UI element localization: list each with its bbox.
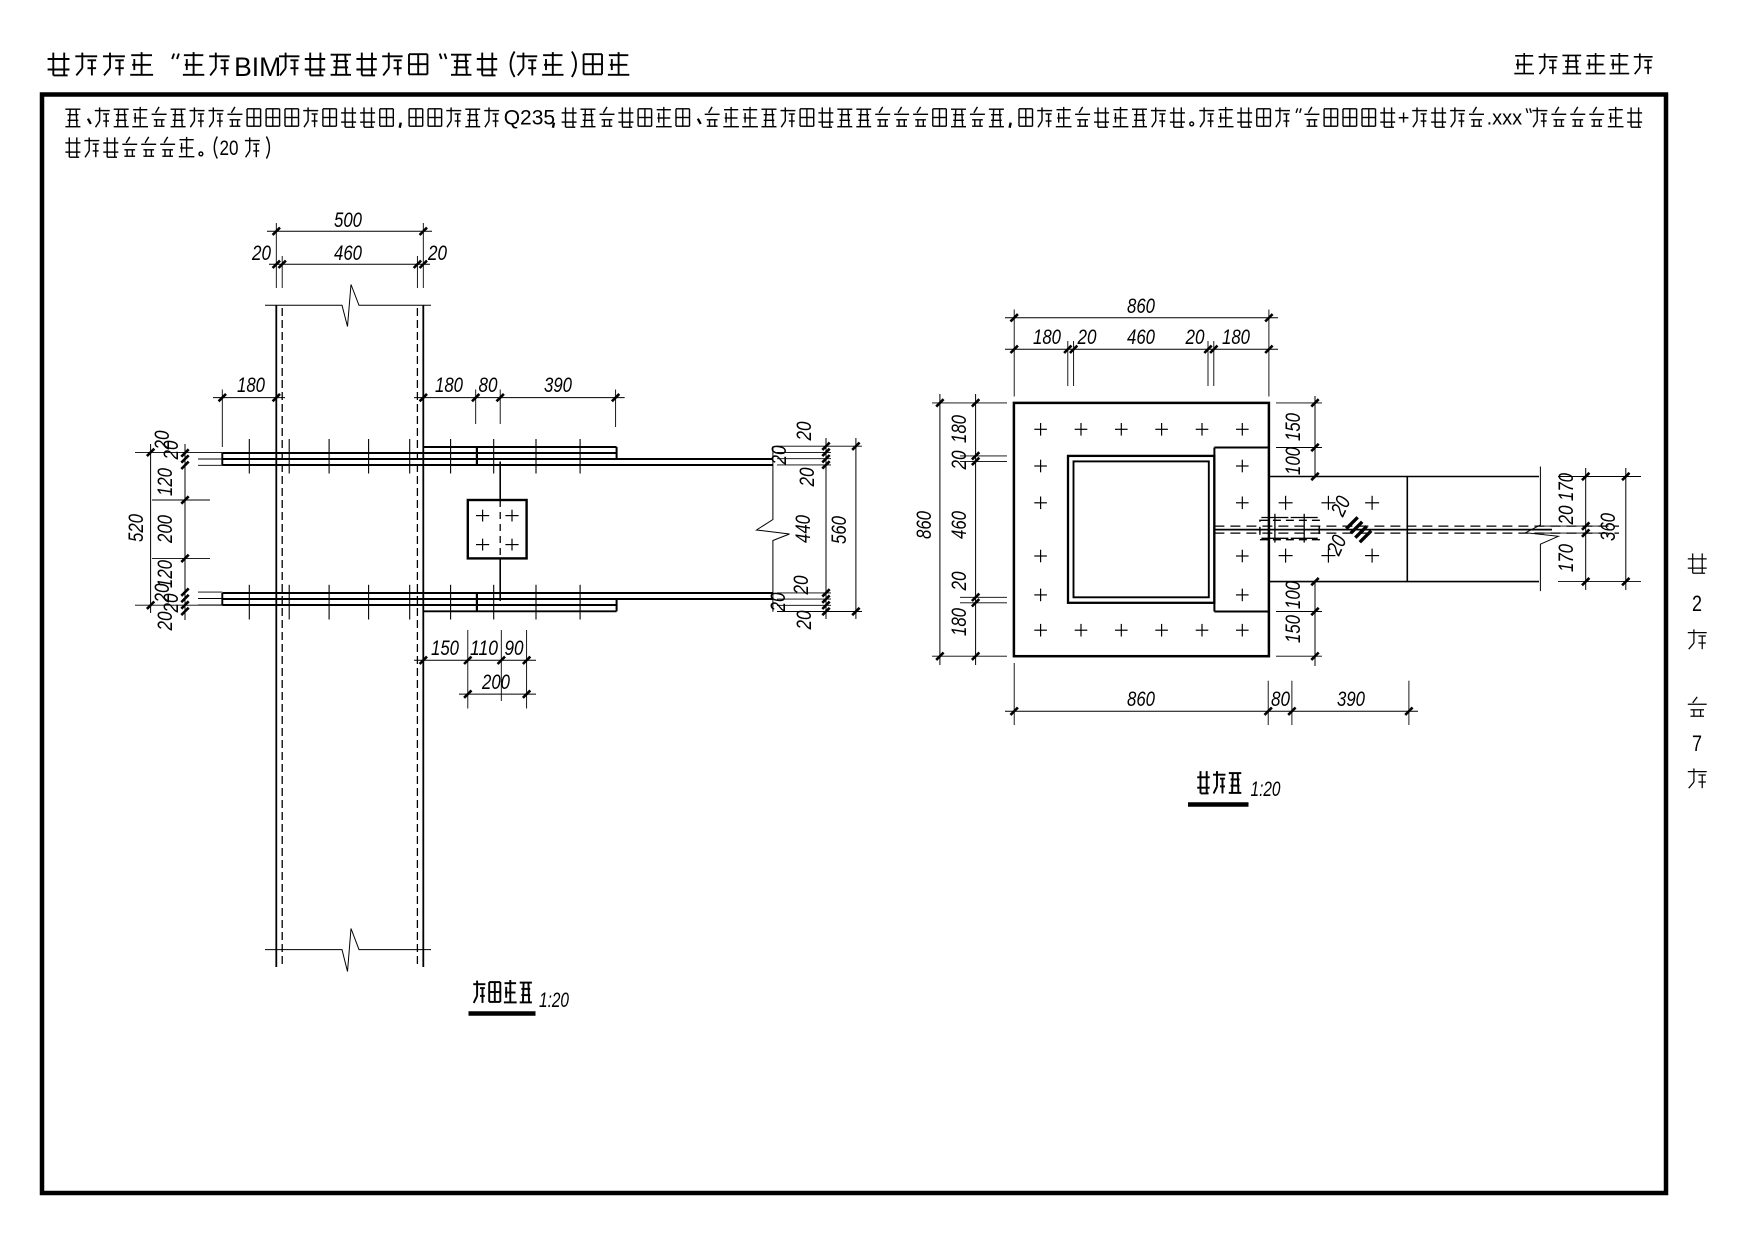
top view dim chain: 170/20/170 right end — [1585, 468, 1587, 590]
header title left — [52, 53, 54, 76]
svg-text:Q235: Q235 — [504, 107, 555, 130]
svg-text:110: 110 — [470, 637, 498, 660]
svg-text:20: 20 — [948, 450, 971, 470]
svg-text:20: 20 — [796, 467, 819, 487]
top view: splice cover bolts — [1279, 502, 1293, 504]
svg-text:440: 440 — [792, 515, 815, 543]
svg-text:150: 150 — [1282, 615, 1305, 643]
elevation dim: 520 overall left — [150, 444, 152, 613]
svg-text:+: + — [1398, 108, 1410, 130]
svg-text:150: 150 — [1282, 413, 1305, 441]
svg-text:2: 2 — [1692, 591, 1702, 616]
top view title — [1200, 771, 1202, 793]
top view: beam center line — [1214, 529, 1552, 531]
instruction line 2 — [68, 137, 70, 157]
top view dim chain: 150/100 .. 100/150 right — [1314, 396, 1316, 477]
top view dim: 860/80/390 bottom — [1005, 710, 1418, 712]
svg-text:180: 180 — [237, 374, 265, 397]
svg-text:180: 180 — [1222, 326, 1250, 349]
svg-text:460: 460 — [334, 242, 362, 265]
svg-text:390: 390 — [544, 374, 572, 397]
instruction line 1 — [65, 108, 80, 110]
svg-text:.xxx: .xxx — [1487, 108, 1523, 130]
svg-text:7: 7 — [1692, 731, 1702, 756]
elevation view title — [473, 983, 485, 985]
svg-text:20: 20 — [1077, 326, 1097, 349]
top view dim chain: 180/20/460/20/180 top — [1005, 348, 1278, 350]
top view dim chain: 180/20/460/20/180 left — [975, 394, 977, 665]
top view: web splice bolts — [1274, 514, 1276, 543]
svg-text:100: 100 — [1282, 581, 1305, 609]
svg-text:80: 80 — [479, 374, 498, 397]
elevation: flange bolts (tick marks) — [248, 439, 250, 474]
svg-text:20: 20 — [948, 571, 971, 591]
elevation dim chain right: 20s/440 — [825, 438, 827, 619]
elevation: web splice shear plate — [468, 500, 527, 558]
svg-text:150: 150 — [431, 637, 459, 660]
svg-text:20: 20 — [768, 445, 791, 465]
svg-text:200: 200 — [154, 515, 177, 544]
svg-text:120: 120 — [154, 468, 177, 496]
elevation dim: 500 (column width) — [267, 230, 432, 232]
svg-text:1:20: 1:20 — [539, 989, 569, 1012]
svg-text:20: 20 — [160, 440, 183, 460]
svg-text:20: 20 — [793, 421, 816, 441]
svg-text:20: 20 — [160, 593, 183, 613]
elevation: beam bottom flange package — [222, 592, 773, 594]
svg-text:500: 500 — [334, 209, 362, 232]
top view dim: 360 — [1625, 468, 1627, 590]
top view: anchor bolts plus marks — [1034, 428, 1047, 430]
elevation dim: 200 — [459, 693, 536, 695]
svg-text:20: 20 — [427, 242, 447, 265]
top view: beam break line — [1526, 467, 1559, 592]
page number column — [1692, 553, 1694, 573]
svg-text:170: 170 — [1555, 473, 1578, 501]
svg-text:170: 170 — [1555, 544, 1578, 572]
svg-text:180: 180 — [948, 608, 971, 636]
svg-text:20: 20 — [1555, 505, 1578, 525]
top view: column box section outer — [1068, 456, 1214, 603]
top view: column box section inner — [1074, 461, 1209, 597]
svg-text:1:20: 1:20 — [1251, 778, 1281, 801]
svg-text:860: 860 — [1127, 295, 1155, 318]
svg-text:460: 460 — [948, 511, 971, 539]
elevation dim: 180 left — [213, 397, 285, 399]
elevation: shear plate bolts — [476, 515, 489, 517]
elevation: beam top flange package — [423, 446, 616, 448]
elevation: beam right break line — [757, 446, 790, 611]
top view: cover plate right end — [1406, 477, 1408, 582]
svg-text:100: 100 — [1282, 447, 1305, 475]
svg-text:180: 180 — [1033, 326, 1061, 349]
elevation dim: 20/460/20 — [269, 263, 430, 265]
top view dim: 860 left — [939, 394, 941, 665]
svg-text:90: 90 — [505, 637, 524, 660]
svg-text:20: 20 — [154, 611, 177, 631]
top view: cover plate edge lines at notch — [1214, 447, 1269, 449]
svg-text:860: 860 — [1127, 688, 1155, 711]
elevation: beam splice joint line — [499, 462, 501, 501]
top view: hidden web lines — [1214, 525, 1619, 527]
svg-text:180: 180 — [435, 374, 463, 397]
svg-text:20: 20 — [790, 575, 813, 595]
elevation dim: 180/80/390 right — [414, 397, 625, 399]
top view: beam flange edges — [1269, 476, 1539, 478]
top view: big plate outline — [1014, 403, 1269, 656]
elevation dim: 560 overall right — [855, 438, 857, 619]
elevation dim: 150/110/90 below — [414, 659, 536, 661]
svg-text:80: 80 — [1271, 688, 1290, 711]
svg-text:200: 200 — [481, 671, 510, 694]
top view: hidden shear plate rectangle — [1260, 520, 1319, 539]
top view dim: 860 top — [1005, 317, 1278, 319]
svg-text:20: 20 — [251, 242, 271, 265]
svg-text:390: 390 — [1337, 688, 1365, 711]
svg-text:560: 560 — [828, 516, 851, 544]
svg-text:360: 360 — [1597, 513, 1620, 541]
elevation dim chain: 20/20/120/200/120/20/20 left — [184, 444, 186, 620]
elevation: column hidden (dashed) lines — [281, 308, 283, 967]
svg-text:520: 520 — [125, 514, 148, 542]
elevation: column bottom break line — [265, 929, 431, 972]
svg-text:20: 20 — [1185, 326, 1205, 349]
elevation: column top break line — [265, 285, 431, 327]
svg-text:BIM: BIM — [234, 52, 281, 82]
svg-text:20: 20 — [793, 610, 816, 630]
svg-text:460: 460 — [1127, 326, 1155, 349]
svg-text:20: 20 — [767, 592, 790, 612]
elevation: steel column solid flange lines — [275, 305, 277, 967]
svg-text:180: 180 — [948, 415, 971, 443]
header title right — [1515, 55, 1533, 57]
svg-text:20: 20 — [220, 137, 239, 160]
top view dim: 20/20 web at center — [1346, 517, 1357, 528]
svg-text:860: 860 — [913, 511, 936, 539]
